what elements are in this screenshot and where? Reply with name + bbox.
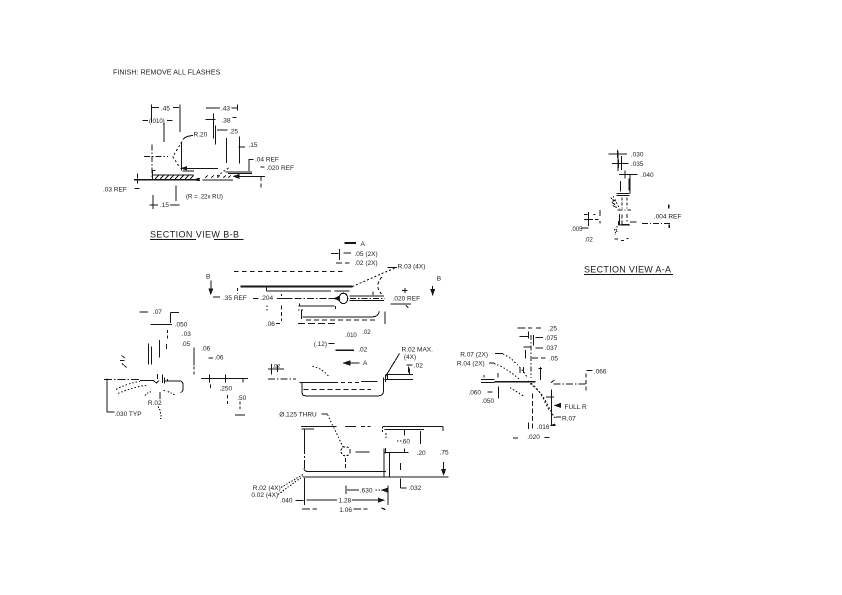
right step verticals xyxy=(384,449,390,478)
ext below right xyxy=(260,177,262,190)
lower verticals xyxy=(622,214,627,226)
svg-text:.630: .630 xyxy=(360,487,373,494)
PLAN VIEW GROUP xyxy=(251,426,449,514)
svg-text:.040: .040 xyxy=(280,498,293,505)
svg-text:.030 TYP: .030 TYP xyxy=(115,411,142,418)
right baseline xyxy=(238,175,265,177)
svg-text:A: A xyxy=(363,360,368,367)
dim .25 xyxy=(216,126,228,145)
dim .45 xyxy=(152,105,181,132)
svg-text:R.02 (4X): R.02 (4X) xyxy=(253,485,281,492)
left small dim xyxy=(268,364,284,375)
svg-text:R.02 MAX.: R.02 MAX. xyxy=(402,346,434,353)
tray left wall xyxy=(302,383,305,396)
svg-text:.035: .035 xyxy=(631,161,644,168)
svg-text:R.20: R.20 xyxy=(194,132,208,139)
svg-text:B: B xyxy=(206,273,210,280)
svg-text:R.04 (2X): R.04 (2X) xyxy=(457,361,485,368)
svg-text:.02: .02 xyxy=(273,364,281,370)
dim .43 xyxy=(206,105,238,111)
corner marks top right xyxy=(383,427,386,439)
bottom right dash xyxy=(630,221,636,223)
svg-text:.05: .05 xyxy=(549,355,558,362)
svg-text:.016: .016 xyxy=(537,424,550,431)
svg-text:.05 (2X): .05 (2X) xyxy=(355,251,378,258)
bend centerline horizontal xyxy=(144,156,168,158)
bottom dim .15 xyxy=(150,186,180,210)
svg-text:R.02: R.02 xyxy=(148,400,162,407)
part main edge xyxy=(495,381,536,383)
svg-text:.004 REF: .004 REF xyxy=(654,213,681,220)
right ext vertical xyxy=(384,312,386,325)
svg-text:.60: .60 xyxy=(401,439,410,446)
dim .07 xyxy=(139,311,148,313)
left dim block xyxy=(581,210,600,228)
CENTER VIEW GROUP xyxy=(206,241,441,367)
dashed bend lines R20 xyxy=(173,142,182,167)
tray top-left lip xyxy=(300,382,335,384)
label R.03 (4X) xyxy=(388,266,398,268)
lip dashed rise xyxy=(217,168,229,176)
part inner line xyxy=(266,287,349,291)
svg-text:(.010): (.010) xyxy=(149,119,165,125)
part bottom right xyxy=(619,214,630,225)
S-curve dotted parallel xyxy=(528,381,549,410)
flank hatch xyxy=(612,200,616,208)
centerline crossing dash xyxy=(551,380,555,383)
tray outer bottom xyxy=(306,393,384,396)
svg-text:.25: .25 xyxy=(229,129,238,136)
svg-text:.45: .45 xyxy=(161,106,170,113)
flat pattern dashed line xyxy=(234,271,343,273)
dim .030 xyxy=(609,150,627,158)
svg-text:.037: .037 xyxy=(545,345,558,352)
dim .02 right xyxy=(407,364,413,366)
svg-text:.07: .07 xyxy=(153,309,162,316)
tongue double lines xyxy=(350,296,384,300)
svg-text:.204: .204 xyxy=(261,295,274,302)
svg-text:A: A xyxy=(361,241,366,248)
dim .040 xyxy=(619,171,638,179)
profile dip xyxy=(154,381,159,383)
edge ticks xyxy=(484,373,498,378)
bottom L xyxy=(619,221,630,225)
stack centerline xyxy=(530,335,532,378)
svg-text:.15: .15 xyxy=(249,142,258,149)
svg-text:.005: .005 xyxy=(571,227,583,233)
svg-text:R.07 (2X): R.07 (2X) xyxy=(460,352,488,359)
label FULL R xyxy=(555,404,561,408)
S-curve dotted main xyxy=(530,384,557,419)
small marks left xyxy=(120,356,127,368)
svg-text:.075: .075 xyxy=(545,335,558,342)
right ledge double xyxy=(384,374,413,379)
hatch left flange xyxy=(155,175,194,179)
svg-text:.02: .02 xyxy=(414,362,423,369)
svg-text:.02: .02 xyxy=(585,238,594,244)
plan left edge xyxy=(303,429,305,452)
plan second line xyxy=(302,428,425,430)
svg-text:.06: .06 xyxy=(201,346,210,353)
svg-text:.030: .030 xyxy=(631,152,644,159)
left bracket xyxy=(104,379,140,412)
mid junction xyxy=(197,179,201,181)
hole circle xyxy=(341,447,350,456)
leader to R.03 xyxy=(352,268,396,287)
svg-text:.020 REF: .020 REF xyxy=(267,165,294,172)
hole centerline down xyxy=(345,458,347,468)
ext verticals bottom xyxy=(551,390,553,426)
svg-text:B: B xyxy=(437,275,441,282)
dim .25 xyxy=(517,327,541,329)
dashed arc right xyxy=(378,277,382,294)
svg-text:SECTION VIEW A-A: SECTION VIEW A-A xyxy=(584,265,671,275)
bottom center mark xyxy=(615,226,617,235)
TRAY VIEW GROUP xyxy=(268,346,433,449)
svg-text:.060: .060 xyxy=(468,390,481,397)
part profile left arm xyxy=(140,380,154,382)
part top bar xyxy=(617,194,630,196)
right step riser xyxy=(385,374,387,382)
dotted details below xyxy=(163,389,166,391)
SECTION A-A GROUP xyxy=(571,150,682,275)
svg-text:.02: .02 xyxy=(362,330,371,336)
left ext vertical xyxy=(497,387,499,399)
svg-text:.04 REF: .04 REF xyxy=(255,157,279,164)
left baseline xyxy=(134,179,199,181)
tray inner bottom dashed xyxy=(304,388,372,390)
svg-text:.06: .06 xyxy=(266,321,275,328)
cross tick xyxy=(546,396,554,398)
dim .066 right xyxy=(586,370,592,372)
dim .075 xyxy=(520,331,544,345)
double ticks xyxy=(520,367,523,373)
svg-text:(4X): (4X) xyxy=(404,354,416,361)
svg-text:FULL R: FULL R xyxy=(565,404,587,411)
dim 1.28 xyxy=(303,478,305,505)
flange left edge xyxy=(153,171,156,180)
lower solid line xyxy=(298,304,335,310)
SECTION B-B GROUP xyxy=(103,105,294,240)
leaders to corner xyxy=(281,475,303,488)
rivet circle xyxy=(339,293,348,303)
hole centerline right xyxy=(356,451,370,453)
svg-text:.050: .050 xyxy=(175,322,188,329)
lower outline xyxy=(301,310,379,319)
profile mid bar xyxy=(167,379,180,381)
right tab edge xyxy=(442,426,444,431)
svg-text:.25: .25 xyxy=(548,325,557,332)
left flank dotted xyxy=(613,196,620,209)
part top edge xyxy=(240,286,352,288)
dim .05 xyxy=(532,357,545,359)
svg-text:SECTION VIEW B-B: SECTION VIEW B-B xyxy=(150,230,239,240)
extension lines xyxy=(618,151,630,194)
svg-text:(R = .22x RU): (R = .22x RU) xyxy=(186,195,223,201)
dim .630 xyxy=(346,486,359,495)
mid baseline xyxy=(202,179,233,181)
lip double line xyxy=(226,172,252,174)
tick above tongue xyxy=(372,292,374,296)
plan top edge xyxy=(301,425,356,427)
svg-text:FINISH: REMOVE ALL FLASHES: FINISH: REMOVE ALL FLASHES xyxy=(113,70,221,77)
svg-text:.35 REF: .35 REF xyxy=(223,295,247,302)
svg-text:.02 (2X): .02 (2X) xyxy=(355,260,378,267)
svg-text:(.12): (.12) xyxy=(314,341,327,348)
part left double edge xyxy=(481,379,495,382)
leader dotted to part xyxy=(116,382,140,390)
lip arrow junction xyxy=(234,175,239,179)
part top surface with arrow xyxy=(182,167,219,170)
svg-text:.05: .05 xyxy=(181,341,190,348)
leader dash-dot right xyxy=(642,223,672,225)
tray top-right lip xyxy=(361,381,378,383)
leader curve below xyxy=(158,407,161,419)
svg-text:.010: .010 xyxy=(345,333,357,339)
leader down vertical xyxy=(159,392,161,399)
lower dashed xyxy=(306,319,377,321)
left centerline xyxy=(268,378,296,380)
extension lines xyxy=(149,340,195,365)
corner tick xyxy=(539,367,542,380)
dim .050 xyxy=(151,324,172,326)
section arrow A top xyxy=(344,242,356,244)
part wall right edge xyxy=(180,142,182,171)
svg-text:.75: .75 xyxy=(440,449,449,456)
part outer verticals xyxy=(621,179,630,192)
dim .38 xyxy=(206,114,216,139)
svg-text:.032: .032 xyxy=(409,485,422,492)
dim .02 small xyxy=(336,349,354,351)
section arrow A bottom xyxy=(344,361,360,365)
svg-text:.020: .020 xyxy=(527,434,540,441)
dim .065 xyxy=(209,357,214,359)
dim .016 xyxy=(529,423,556,430)
extension line xyxy=(163,122,165,141)
svg-text:Ø.125 THRU: Ø.125 THRU xyxy=(279,412,317,419)
RIGHT DETAIL GROUP xyxy=(457,325,607,441)
dim (.010) xyxy=(143,120,173,122)
svg-text:R.03 (4X): R.03 (4X) xyxy=(398,264,426,271)
svg-text:.43: .43 xyxy=(221,106,230,113)
svg-text:.250: .250 xyxy=(220,385,233,392)
tongue centerline xyxy=(350,297,385,299)
tray right wall xyxy=(383,378,385,393)
dim .020 REF right xyxy=(402,288,408,293)
bottom right tick xyxy=(235,414,245,416)
dim .035 xyxy=(612,160,629,169)
dotted leader to hole xyxy=(328,415,345,450)
centerline right xyxy=(554,383,586,385)
dim .20 xyxy=(384,448,409,453)
svg-text:.050: .050 xyxy=(482,398,495,405)
svg-text:1.28: 1.28 xyxy=(339,498,352,505)
label R.07 xyxy=(556,416,561,418)
svg-text:.50: .50 xyxy=(237,395,246,402)
svg-text:.03 REF: .03 REF xyxy=(103,186,127,193)
dim .15 top xyxy=(226,136,245,163)
profile ticks xyxy=(158,374,168,383)
LEFT VIEW GROUP xyxy=(104,309,248,419)
right datum line xyxy=(201,375,248,383)
profile right hook xyxy=(180,381,183,393)
dim .60 xyxy=(404,429,420,444)
mid dash-dot xyxy=(618,209,632,211)
dim .02 (2X) xyxy=(336,262,349,264)
leader to ledge xyxy=(386,354,400,377)
right dashes xyxy=(211,385,228,404)
ledge ext tick xyxy=(409,367,410,375)
bend centerline vertical xyxy=(151,145,153,178)
left flange top xyxy=(153,174,194,176)
svg-text:.06: .06 xyxy=(215,354,224,361)
svg-text:.15: .15 xyxy=(160,202,169,209)
svg-text:0.02 (4X): 0.02 (4X) xyxy=(251,492,278,499)
svg-text:.066: .066 xyxy=(594,369,607,376)
svg-text:.02: .02 xyxy=(358,347,367,354)
svg-text:.03: .03 xyxy=(182,331,191,338)
svg-text:.20: .20 xyxy=(417,450,426,457)
dim .037 xyxy=(523,346,543,349)
svg-text:.020 REF: .020 REF xyxy=(393,295,420,302)
svg-text:R.07: R.07 xyxy=(562,416,576,423)
svg-text:.040: .040 xyxy=(641,172,654,179)
label .020 REF xyxy=(261,166,265,168)
dim .35 REF xyxy=(213,296,220,298)
part inner verticals dashed xyxy=(622,198,627,209)
dotted arc leader xyxy=(312,367,329,377)
svg-text:1.06: 1.06 xyxy=(339,507,352,514)
mid hatch dots xyxy=(205,175,231,178)
dim .032 bracket xyxy=(401,463,407,488)
dim 1.06 xyxy=(302,508,367,510)
dim .05 (2X) xyxy=(331,249,351,260)
svg-text:.38: .38 xyxy=(222,118,231,125)
plan bottom double edge xyxy=(304,469,386,472)
short leader curves xyxy=(510,388,524,397)
centerline xyxy=(277,297,293,299)
